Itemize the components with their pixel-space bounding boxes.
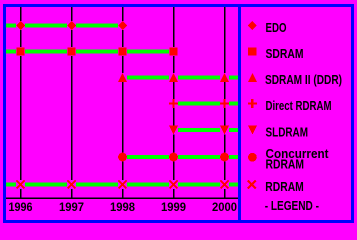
marker x RDRAM 1998 xyxy=(118,180,127,189)
bar RDRAM xyxy=(6,183,238,187)
bar Concurrent RDRAM xyxy=(118,155,238,159)
svg-text:2000: 2000 xyxy=(212,200,237,214)
marker triangle SDRAM II 1999 xyxy=(169,73,178,82)
marker square SDRAM 1997 xyxy=(67,47,76,56)
svg-text:EDO: EDO xyxy=(266,21,287,35)
marker circle Concurrent RDRAM 2000 xyxy=(220,153,229,162)
legend marker triangle xyxy=(248,73,257,82)
legend marker x xyxy=(248,181,256,189)
marker circle Concurrent RDRAM 1998 xyxy=(118,153,127,162)
marker triangle SDRAM II 2000 xyxy=(220,73,229,82)
legend marker triangle-down xyxy=(248,126,257,135)
svg-text:RDRAM: RDRAM xyxy=(265,180,304,194)
legend marker circle xyxy=(248,153,257,162)
gridline 1997 xyxy=(71,7,73,199)
svg-text:1996: 1996 xyxy=(9,200,33,214)
gridline 1996 xyxy=(20,7,22,199)
gridline 1999 xyxy=(173,7,175,199)
bar EDO xyxy=(6,24,123,28)
marker circle Concurrent RDRAM 1999 xyxy=(169,153,178,162)
marker x RDRAM 1999 xyxy=(169,180,178,189)
marker x RDRAM 1997 xyxy=(67,180,76,189)
svg-text:- LEGEND -: - LEGEND - xyxy=(265,199,319,213)
marker diamond EDO 1997 xyxy=(67,21,76,30)
x axis xyxy=(6,198,238,200)
legend divider xyxy=(238,4,241,223)
svg-text:Direct RDRAM: Direct RDRAM xyxy=(266,99,332,113)
gridline 1998 xyxy=(122,7,124,199)
marker diamond EDO 1996 xyxy=(16,21,25,30)
marker triangle-down SLDRAM 1999 xyxy=(169,126,178,135)
svg-text:SDRAM: SDRAM xyxy=(266,47,304,61)
svg-text:1997: 1997 xyxy=(59,200,84,214)
marker x RDRAM 2000 xyxy=(220,180,229,189)
marker plus Direct RDRAM 2000 xyxy=(220,99,229,108)
outer frame right xyxy=(351,4,354,223)
bar SLDRAM xyxy=(169,128,238,132)
svg-text:SDRAM II (DDR): SDRAM II (DDR) xyxy=(265,73,342,87)
marker diamond EDO 1998 xyxy=(118,21,127,30)
svg-text:SLDRAM: SLDRAM xyxy=(266,126,309,140)
outer frame top xyxy=(3,4,354,7)
legend marker square xyxy=(248,47,256,55)
svg-text:RDRAM: RDRAM xyxy=(266,158,305,172)
bar Direct RDRAM xyxy=(169,102,238,106)
svg-text:1999: 1999 xyxy=(161,200,186,214)
bar SDRAM xyxy=(6,50,174,54)
marker x RDRAM 1996 xyxy=(16,180,25,189)
marker plus Direct RDRAM 1999 xyxy=(169,99,178,108)
svg-text:1998: 1998 xyxy=(110,200,135,214)
gridline 2000 xyxy=(224,7,226,199)
legend marker diamond xyxy=(248,21,257,30)
marker triangle-down SLDRAM 2000 xyxy=(220,126,229,135)
marker square SDRAM 1998 xyxy=(118,47,127,56)
marker square SDRAM 1999 xyxy=(169,47,178,56)
marker square SDRAM 1996 xyxy=(16,47,25,56)
outer frame bottom xyxy=(3,220,354,223)
outer frame left xyxy=(3,4,6,223)
marker triangle SDRAM II 1998 xyxy=(118,73,127,82)
bar SDRAM II (DDR) xyxy=(118,76,238,80)
legend marker plus xyxy=(248,99,257,108)
